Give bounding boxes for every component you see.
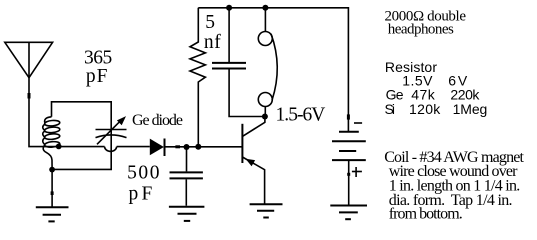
- svg-text:120k: 120k: [409, 101, 441, 117]
- svg-text:nf: nf: [204, 32, 221, 53]
- svg-text:from bottom.: from bottom.: [389, 205, 463, 222]
- svg-text:Ge diode: Ge diode: [132, 112, 183, 129]
- svg-text:headphones: headphones: [388, 22, 454, 38]
- svg-text:1.5-6V: 1.5-6V: [276, 105, 326, 126]
- svg-text:5: 5: [205, 12, 215, 33]
- svg-text:pF: pF: [86, 66, 108, 87]
- svg-text:500: 500: [127, 162, 159, 183]
- svg-text:1Meg: 1Meg: [453, 101, 488, 117]
- svg-text:Si: Si: [385, 101, 396, 117]
- svg-text:pF: pF: [129, 184, 153, 205]
